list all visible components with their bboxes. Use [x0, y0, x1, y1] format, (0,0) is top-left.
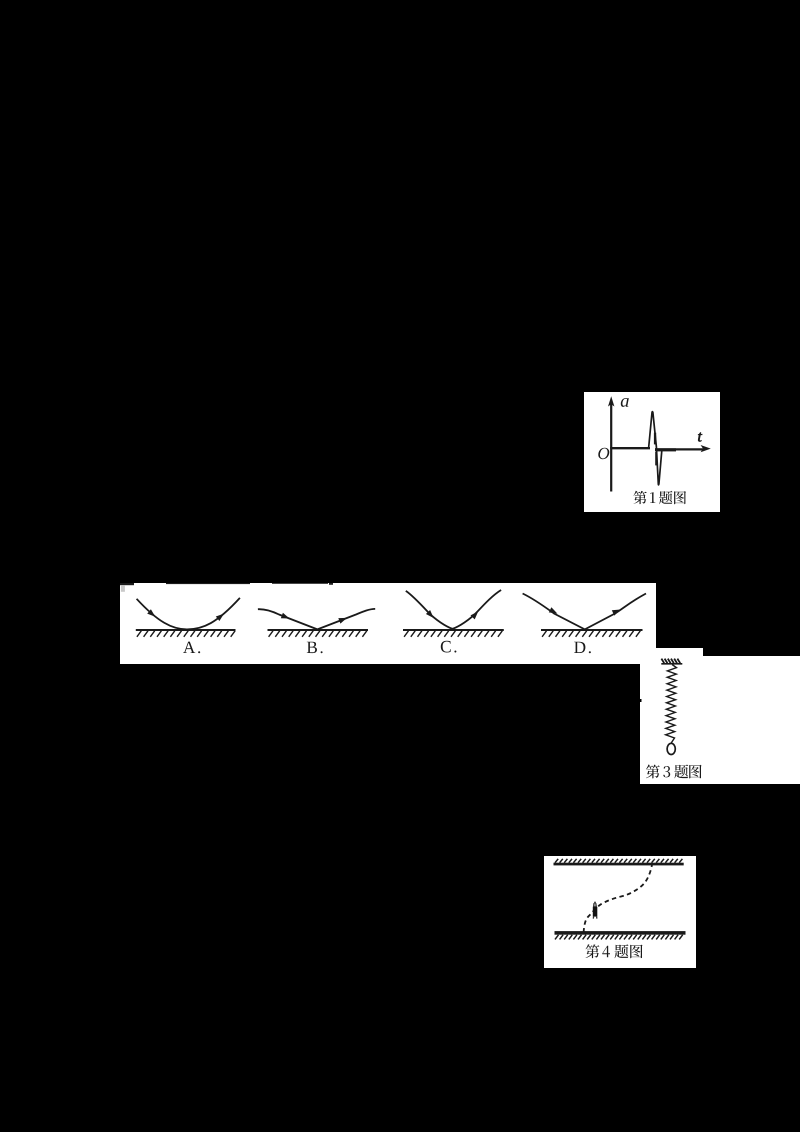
ceiling hatch marks — [661, 658, 680, 663]
dashed trajectory — [584, 865, 652, 933]
t-axis line left of pulse — [610, 447, 650, 449]
spring coil — [666, 664, 677, 743]
acceleration pulse curve — [649, 412, 662, 485]
option C ground — [403, 629, 504, 631]
a-axis arrowhead — [608, 396, 614, 406]
label a — [621, 398, 629, 407]
option A bounce curve — [137, 598, 240, 630]
ceiling bar — [554, 863, 684, 866]
t-axis line right of pulse — [655, 448, 704, 450]
caption 第1题图 — [633, 491, 686, 504]
firecracker feet — [593, 917, 597, 919]
label C. — [441, 641, 457, 653]
label t — [698, 433, 702, 442]
option D arrow outgoing — [612, 610, 621, 616]
floor bar — [555, 931, 686, 935]
torn text remnants top edge — [120, 583, 134, 585]
firecracker head — [594, 903, 597, 907]
firecracker fuse dot — [594, 902, 596, 904]
option B arrow incoming — [281, 613, 290, 619]
option C arrow incoming — [426, 610, 434, 618]
floor hatch marks — [555, 935, 683, 940]
option A arrow incoming — [147, 609, 155, 617]
figure 3 white panel left — [640, 648, 703, 784]
firecracker body — [593, 907, 598, 917]
label B. — [307, 642, 323, 654]
figure 3 white panel right — [703, 656, 800, 784]
hanging ball — [667, 743, 675, 754]
option B bounce lines — [258, 609, 375, 630]
label D. — [574, 642, 591, 654]
option D bounce lines — [523, 594, 646, 630]
option C arrow outgoing — [471, 611, 479, 619]
option B ground — [268, 629, 369, 631]
option B arrow outgoing — [338, 618, 347, 624]
label A. — [183, 642, 200, 654]
a-axis vertical line — [610, 403, 612, 492]
t-axis arrowhead — [701, 445, 711, 452]
figure 4 white panel — [544, 856, 696, 968]
caption 第4题图 — [586, 944, 643, 958]
t-axis thicker overlap — [655, 448, 676, 451]
options strip white panel — [120, 583, 656, 664]
ceiling hatch line — [661, 662, 682, 664]
option A ground — [136, 629, 236, 631]
label O — [598, 448, 609, 460]
edge speck — [640, 699, 642, 702]
option D ground — [541, 629, 643, 631]
pulse jag lower blob — [655, 452, 657, 465]
option C bounce curve — [406, 590, 501, 629]
caption 第3题图 — [646, 764, 702, 778]
option A arrow outgoing — [216, 614, 224, 621]
figure 1 white panel — [584, 392, 720, 512]
pulse jag upper blob — [654, 433, 656, 445]
option D arrow incoming — [549, 607, 558, 613]
ceiling hatch marks — [555, 859, 682, 863]
